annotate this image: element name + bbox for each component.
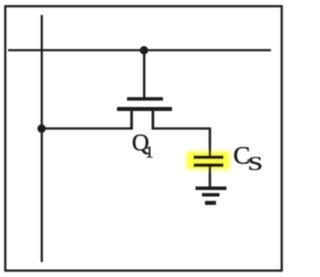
transistor Q1 source leg xyxy=(130,111,133,130)
wire: transistor drain to capacitor xyxy=(152,127,211,129)
transistor Q1 drain leg xyxy=(152,111,155,130)
svg-text:S: S xyxy=(248,154,263,175)
transistor Q1 gate bar xyxy=(127,97,163,100)
wire: horizontal select line (top rail) xyxy=(8,49,271,51)
ground symbol bar 1 xyxy=(196,187,227,191)
wire: data line to transistor source xyxy=(42,127,133,129)
wire: capacitor bottom lead to ground xyxy=(209,167,211,188)
transistor Q1 channel bar xyxy=(117,107,172,111)
wire: gate lead from select line to transistor gate xyxy=(143,50,145,98)
yellow highlight on storage capacitor xyxy=(187,152,230,170)
node: junction dot on select line xyxy=(140,46,148,54)
capacitor Cs bottom plate xyxy=(194,163,224,167)
wire: capacitor top lead xyxy=(209,128,211,157)
node: junction dot on data line xyxy=(37,124,45,132)
ground symbol bar 2 xyxy=(202,193,220,196)
wire: vertical data line (left rail) xyxy=(41,15,43,262)
capacitor Cs top plate xyxy=(194,156,224,160)
svg-text:1: 1 xyxy=(145,143,153,162)
ground symbol bar 3 xyxy=(205,201,216,205)
